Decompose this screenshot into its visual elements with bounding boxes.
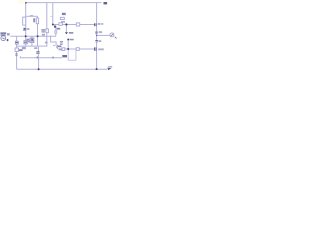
wire bottom rail — [17, 68, 108, 70]
junction dot rail x25.7 — [25, 35, 27, 37]
label above box node row — [61, 21, 65, 23]
junction dot bottom x38.6 — [38, 68, 40, 70]
resistor R1 box left — [23, 17, 26, 25]
faint dash near x52 — [50, 15, 53, 18]
net flag node — [67, 39, 69, 41]
AC source V1 — [1, 36, 6, 41]
its label — [57, 28, 61, 30]
tick on low rail x37.2 — [36, 57, 39, 59]
wire zener stub — [31, 36, 33, 46]
resistor R5 box — [46, 29, 49, 33]
label right of R5 chain — [45, 42, 48, 44]
net blob below node row — [54, 26, 56, 28]
capacitor C4 on right bus — [95, 40, 98, 42]
label near branch — [30, 15, 33, 17]
wire mid rail y36.2 — [10, 35, 55, 37]
capacitor C3 label — [99, 31, 103, 33]
wire feedback line y46.1 — [17, 45, 48, 47]
resistor R2 box — [36, 18, 38, 24]
transistor Q1 — [57, 45, 58, 48]
wire branch y35.4 right — [97, 34, 110, 36]
label D1 text — [27, 40, 30, 42]
label box3 row2 — [60, 43, 63, 45]
wire branch y16.3 — [26, 15, 38, 17]
label near cap C7 — [34, 47, 37, 49]
wire left column x16.6 — [16, 36, 18, 69]
resistor box5 left column — [15, 48, 18, 51]
marks on left column low — [15, 53, 17, 56]
junction dot rail x37.6 — [37, 35, 39, 37]
wire mid node row y24.5 — [53, 24, 95, 26]
wire vertical R5 chain — [46, 3, 48, 47]
junction dot output row — [67, 48, 69, 50]
label box3 row1 — [60, 41, 63, 43]
label R2 text — [33, 18, 35, 22]
wire vertical left bus — [25, 3, 27, 47]
diode D1 on left bus — [24, 41, 27, 44]
junction dot x96.6 y35.4 — [96, 35, 97, 36]
junction dot corner x52.8 — [52, 24, 54, 26]
junction dot bottom x96.6 — [96, 68, 98, 70]
wire flag drop x68.2 — [67, 40, 69, 49]
label supply top right — [104, 2, 108, 4]
wire drop to bottom x38.6 — [38, 58, 40, 69]
label R5 text — [41, 29, 45, 30]
wire cap chain x38.4 — [37, 46, 39, 58]
capacitor C2 label — [98, 23, 100, 25]
junction top-left corner cap — [25, 2, 27, 4]
bottom rail arrow terminal — [107, 68, 111, 70]
capacitor C4 label — [98, 40, 101, 42]
wire vertical to node row — [52, 3, 54, 25]
label under feedback line — [22, 47, 26, 49]
tick on low rail x53 — [52, 57, 55, 59]
fuse box on x55.8 — [55, 31, 57, 33]
wire low rail y57.8 — [20, 56, 62, 58]
highlight smudge top-left — [18, 0, 25, 4]
label V1 text — [0, 32, 6, 34]
LED output right — [110, 33, 114, 37]
capacitor C2 at node row end — [94, 23, 96, 26]
wire U loop under (faint) — [68, 49, 76, 60]
wire output row y49.0 — [58, 48, 94, 50]
label D2 text — [26, 39, 29, 41]
relay U5 box — [60, 17, 64, 19]
capacitor C7 between lines — [36, 51, 39, 53]
zener D2 — [30, 38, 34, 43]
LED arrow mark — [115, 37, 117, 39]
capacitor C5 at output row end — [94, 47, 96, 51]
label R7 text — [19, 49, 23, 51]
resistor box2 on node row — [76, 23, 79, 26]
highlight smudge mid-right — [74, 53, 88, 58]
capacitor C3 on right bus — [95, 31, 98, 33]
diode D0 on left bus upper — [23, 28, 26, 30]
transistor Q1 label — [58, 46, 62, 48]
capacitor C5 label — [98, 48, 104, 50]
ground symbol center — [65, 32, 68, 34]
wire vertical right bus — [96, 3, 98, 70]
net flag label — [70, 39, 74, 41]
resistor box3 output row — [62, 48, 65, 51]
plus polarity mark — [7, 39, 9, 41]
label U5 text — [62, 13, 66, 15]
wire vertical R2 chain — [37, 16, 39, 46]
label ao net — [62, 55, 67, 57]
diode B1 left column — [15, 41, 18, 44]
resistor R box on node row — [59, 23, 62, 26]
wire x55.8 drop — [55, 28, 57, 36]
ground label — [69, 32, 74, 34]
resistor box4 output row — [76, 48, 79, 51]
wire top rail — [26, 2, 101, 4]
wire L to transistor — [51, 36, 57, 46]
